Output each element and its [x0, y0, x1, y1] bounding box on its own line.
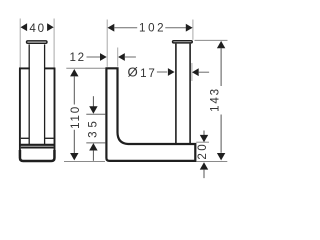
left view step line right [45, 137, 54, 139]
svg-text:Ø: Ø [127, 65, 137, 80]
extension stub at y 114 [86, 113, 105, 115]
left view rod left line [28, 44, 30, 144]
bar top extension stub right [196, 141, 209, 143]
extension stub at bar top left [86, 142, 105, 144]
left view rod right line [44, 44, 46, 144]
left view extension line left [19, 19, 21, 68]
left view step line left [21, 137, 29, 139]
left view rod cap [27, 41, 47, 43]
bar bottom extension line left [64, 161, 105, 163]
dimension 17 right tail line [199, 71, 210, 73]
left view base inner line [21, 146, 54, 148]
left view wall top right segment [44, 67, 55, 69]
left view extension line right [53, 19, 55, 68]
dimension 20 top arrow tail [203, 131, 205, 136]
dimension 12 extension line right [117, 48, 119, 67]
dimension 110 upper line [73, 76, 75, 104]
svg-text:35: 35 [87, 117, 100, 138]
right view 102 extension line left [106, 20, 108, 67]
svg-text:17: 17 [140, 67, 157, 80]
dimension 20 bottom tail [203, 169, 205, 178]
dimension 110 bottom arrow [70, 153, 78, 160]
dimension 143 top arrow [217, 41, 225, 48]
dimension 17 arrow [168, 68, 175, 76]
dimension 143 lower line [220, 115, 222, 153]
right pin right line [189, 44, 191, 144]
dimension 20 top arrow (down) [200, 135, 208, 142]
rod top extension line [66, 67, 105, 69]
right pin left line [175, 44, 177, 144]
dimension 35 bottom arrow (up) [89, 143, 97, 150]
dimension 143 upper line [220, 48, 222, 86]
dimension 17 right arrow (pointing left) [192, 68, 199, 76]
svg-text:143: 143 [209, 87, 222, 112]
dimension 35 top arrow (down) [89, 106, 97, 113]
svg-text:102: 102 [139, 22, 166, 35]
bar bottom extension line right [197, 161, 228, 163]
left view base top line [20, 144, 55, 146]
dimension 110 top arrow [70, 69, 78, 76]
dimension 20 bottom arrow (up) [200, 162, 208, 169]
dimension 17 leader line [157, 71, 167, 73]
dimension 143 bottom arrow [217, 153, 225, 160]
dimension 110 lower line [73, 130, 75, 153]
dimension 102 right arrow [186, 24, 193, 32]
dimension 12 right-pointing arrow [100, 53, 107, 61]
svg-text:20: 20 [196, 142, 209, 160]
left view wall top left segment [19, 67, 30, 69]
cap top extension line right [195, 39, 228, 41]
dimension 40 right arrow [47, 23, 54, 31]
U-bracket outline [105, 68, 195, 161]
left view wall left [19, 68, 21, 156]
dimension 12 right tail line [125, 56, 136, 58]
dimension 12 left-pointing arrow [118, 53, 125, 61]
dimension 12 leader line [87, 56, 101, 58]
dimension 17 right extension stub [191, 63, 193, 81]
dimension 102 left arrow [108, 24, 115, 32]
svg-text:40: 40 [29, 22, 46, 35]
dimension 102 right line [165, 27, 186, 29]
left view base bottom [20, 150, 55, 161]
dimension 40 left arrow [21, 23, 28, 31]
svg-text:110: 110 [69, 105, 82, 129]
left view wall right [54, 68, 56, 156]
dimension 35 upper tail [92, 96, 94, 107]
dimension 102 left line [114, 27, 137, 29]
right view 102 extension line right [192, 20, 194, 40]
svg-text:12: 12 [69, 51, 86, 64]
dimension 35 lower tail [92, 150, 94, 161]
right pin cap [173, 41, 193, 43]
